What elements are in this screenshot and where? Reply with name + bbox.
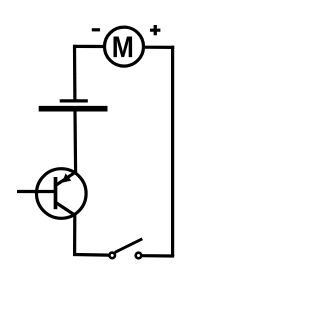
transistor Q1 base bar [54,177,58,209]
transistor Q1 emitter diagonal [57,203,76,216]
transistor Q1 base lead [17,190,56,193]
motor label M [114,37,133,58]
wire left vertical mid [73,111,77,173]
transistor Q1 body circle [37,169,87,219]
wire bottom-left horizontal [73,253,109,257]
motor U1 [105,27,144,66]
switch S1 lever [115,239,143,253]
wire top-right horizontal [144,46,174,49]
wire bottom-right horizontal [142,254,174,258]
plus polarity label [150,25,160,35]
wire right vertical [171,46,174,256]
battery B1 positive plate [60,99,88,102]
transistor Q1 arrow (PNP, pointing to base) [62,173,71,182]
transistor Q1 collector diagonal [57,172,77,185]
wire emitter vertical lower [73,214,76,254]
switch S1 right contact [136,253,142,259]
wire top-left horizontal [73,45,105,48]
switch S1 left contact [109,253,115,259]
battery B1 negative plate [39,106,108,112]
minus polarity label [92,28,100,31]
wire left vertical upper [73,45,77,101]
